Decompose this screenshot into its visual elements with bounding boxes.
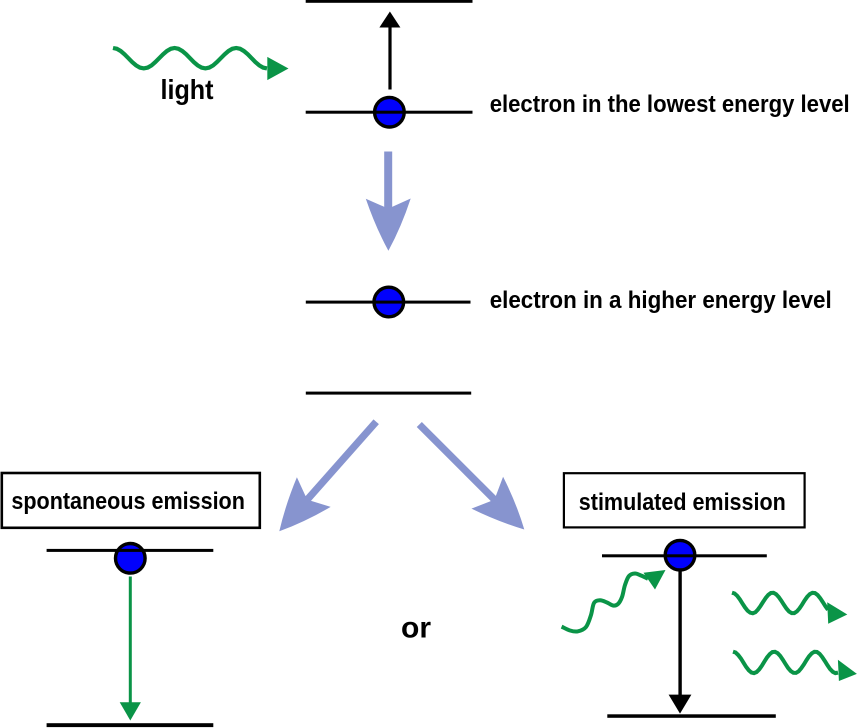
- transition arrow down (periwinkle) shaft: [384, 152, 392, 208]
- svg-text:electron in the lowest energy: electron in the lowest energy level: [490, 91, 850, 118]
- lowest energy level line: [306, 111, 473, 114]
- emitted photon arrow 2 head: [838, 660, 857, 681]
- spontaneous emission arrow head: [120, 702, 141, 720]
- branch arrow to spontaneous emission (periwinkle) shaft: [305, 422, 377, 503]
- electron (lowest level): [375, 97, 405, 127]
- branch arrow left head: [262, 477, 330, 546]
- branch arrow right head: [471, 477, 540, 546]
- emitted photon arrow 1 head: [827, 602, 847, 623]
- svg-text:spontaneous emission: spontaneous emission: [11, 488, 245, 515]
- stimulated: electron on upper level: [665, 540, 695, 570]
- svg-text:electron in a higher energy le: electron in a higher energy level: [490, 287, 832, 314]
- emitted photon wavy arrow 1 (green): [732, 593, 828, 614]
- spontaneous: lower level line: [47, 723, 214, 727]
- incoming light wavy arrow (green): [113, 48, 267, 68]
- stimulating photon wavy arrow (green, diagonal): [562, 573, 648, 631]
- svg-text:light: light: [161, 74, 214, 105]
- spontaneous: upper level line: [47, 549, 214, 552]
- stimulating photon arrow head: [644, 570, 666, 590]
- stimulated emission arrow head: [669, 695, 692, 714]
- spontaneous: electron on upper level: [116, 544, 146, 574]
- branch point energy level line: [306, 392, 471, 395]
- spontaneous emission label box: [2, 473, 260, 528]
- stimulated emission arrow (black) shaft: [678, 571, 681, 696]
- light wavy arrow head: [267, 57, 288, 80]
- emitted photon wavy arrow 2 (green): [733, 652, 838, 673]
- electron (higher level): [374, 287, 404, 317]
- stimulated: upper level line: [602, 554, 767, 557]
- stimulated emission label box: [564, 473, 805, 527]
- transition arrow down head: [366, 199, 411, 251]
- svg-text:stimulated emission: stimulated emission: [579, 489, 786, 516]
- higher energy level line: [306, 301, 471, 304]
- absorption up arrow head: [379, 12, 400, 28]
- absorption up arrow shaft: [388, 26, 391, 90]
- upper energy level line (top, cut off at image edge): [306, 0, 473, 3]
- svg-text:or: or: [401, 612, 431, 645]
- stimulated: lower level line: [607, 714, 776, 718]
- spontaneous emission arrow (green) shaft: [129, 577, 132, 704]
- branch arrow to stimulated emission (periwinkle) shaft: [419, 425, 497, 503]
